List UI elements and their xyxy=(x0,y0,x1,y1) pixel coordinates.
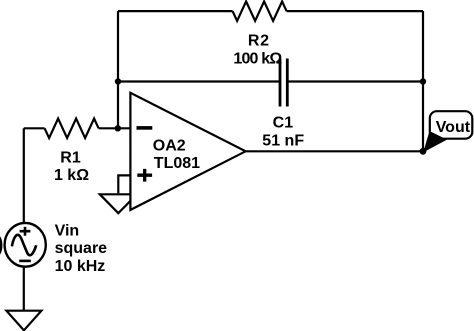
minus polarity mark xyxy=(19,260,31,263)
Vout callout tail xyxy=(423,131,447,152)
wire top-left segment (feedback top rail) xyxy=(118,10,233,12)
svg-text:C1: C1 xyxy=(273,115,294,132)
non-inverting input marker + xyxy=(137,169,152,182)
capacitor C1 xyxy=(262,59,304,150)
svg-text:square: square xyxy=(55,240,108,257)
resistor R2 xyxy=(233,1,287,67)
Vin callout tail (clipped at canvas edge) xyxy=(0,235,2,256)
wire non-inverting input stub to ground xyxy=(118,175,130,193)
wire output xyxy=(246,150,423,152)
svg-text:10 kHz: 10 kHz xyxy=(55,258,106,275)
inverting input marker - xyxy=(137,126,153,130)
junction: left rail / capacitor branch xyxy=(115,78,121,84)
junction: inverting input node xyxy=(115,125,121,131)
svg-text:51 nF: 51 nF xyxy=(262,132,304,149)
ground (non-inverting input) xyxy=(100,194,137,213)
junction: right rail / capacitor branch xyxy=(420,78,426,84)
wire input from source corner to R1 xyxy=(24,128,45,224)
svg-text:1 kΩ: 1 kΩ xyxy=(54,167,89,184)
node Vout callout xyxy=(423,111,472,152)
svg-text:R1: R1 xyxy=(60,150,81,167)
sine symbol xyxy=(12,235,36,255)
svg-text:TL081: TL081 xyxy=(154,155,200,172)
wire right vertical (feedback to output node) xyxy=(422,11,424,151)
wire left feedback vertical xyxy=(117,11,119,128)
svg-text:Vout: Vout xyxy=(436,119,471,136)
wire capacitor branch left xyxy=(118,80,280,82)
resistor R1 xyxy=(45,119,99,185)
op-amp OA2 xyxy=(130,93,245,210)
wire R1 to inverting input xyxy=(99,127,131,129)
wire source bottom lead xyxy=(23,266,25,310)
voltage source V1 (Vin) xyxy=(5,222,108,275)
wire top-right segment (feedback top rail) xyxy=(287,10,423,12)
wire capacitor branch right xyxy=(287,80,423,82)
junction: output node xyxy=(420,148,427,155)
svg-text:OA2: OA2 xyxy=(153,137,186,154)
ground (source) xyxy=(6,311,41,331)
svg-text:Vin: Vin xyxy=(55,222,80,239)
plus polarity mark xyxy=(20,227,31,236)
svg-text:100 kΩ: 100 kΩ xyxy=(233,50,282,67)
svg-text:R2: R2 xyxy=(248,32,270,49)
